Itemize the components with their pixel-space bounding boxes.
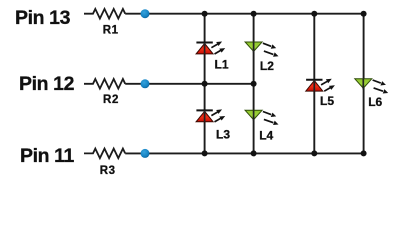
wire: Pin 11 bottom rail — [125, 152, 363, 154]
svg-text:R2: R2 — [103, 94, 119, 106]
node Pin 12 (blue) — [141, 79, 150, 88]
wire: column 2 (L2/L4) — [253, 14, 255, 154]
junction: bottom rail / column 2 — [251, 150, 257, 156]
junction: middle rail / column 1 — [202, 81, 208, 87]
resistor R3 — [84, 149, 125, 177]
junction: top rail / column 2 — [251, 11, 257, 17]
LED L5 (red) — [306, 79, 335, 108]
LED L4 (green) — [245, 110, 278, 142]
svg-text:L1: L1 — [214, 57, 228, 71]
wire: column 1 (L1/L3) — [204, 14, 206, 154]
svg-text:Pin 13: Pin 13 — [15, 7, 71, 29]
junction: bottom rail / column 1 — [202, 150, 208, 156]
LED L2 (green) — [245, 42, 278, 73]
svg-text:R3: R3 — [100, 165, 116, 177]
node Pin 13 (blue) — [141, 9, 150, 18]
junction: bottom rail / column 3 — [311, 150, 317, 156]
wire: column 4 (L6) — [363, 14, 365, 154]
junction: top rail / column 1 — [202, 11, 208, 17]
svg-text:L4: L4 — [259, 129, 273, 143]
svg-text:L5: L5 — [320, 94, 334, 108]
svg-text:Pin 12: Pin 12 — [19, 73, 75, 95]
svg-text:L3: L3 — [216, 127, 230, 141]
svg-text:Pin 11: Pin 11 — [20, 145, 75, 167]
svg-text:L6: L6 — [368, 95, 382, 109]
resistor R1 — [84, 9, 125, 37]
svg-text:L2: L2 — [260, 59, 274, 73]
resistor R2 — [84, 79, 125, 106]
junction: middle rail / column 2 — [251, 81, 257, 87]
svg-text:R1: R1 — [103, 25, 119, 37]
node Pin 11 (blue) — [141, 149, 150, 158]
LED L6 (green) — [355, 79, 388, 109]
LED L1 (red) — [196, 42, 229, 72]
wire: Pin 12 middle rail — [125, 83, 253, 85]
wire: Pin 13 top rail — [125, 13, 363, 15]
junction: bottom rail / column 4 — [361, 150, 367, 156]
junction: top rail / column 3 — [311, 11, 317, 17]
LED L3 (red) — [196, 109, 230, 141]
wire: column 3 (L5) — [313, 14, 315, 154]
junction: top rail / column 4 — [361, 11, 367, 17]
